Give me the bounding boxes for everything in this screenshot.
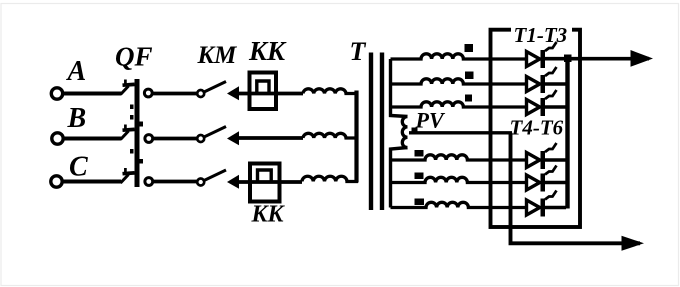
thyristor T6: [527, 191, 567, 217]
polarity marker W5: [415, 173, 424, 180]
svg-text:A: A: [66, 56, 87, 87]
wire C1: [63, 180, 121, 184]
polarity marker W6: [415, 199, 425, 206]
KM arrow A: [227, 86, 239, 100]
primary winding C: [302, 176, 358, 181]
winding W6: [391, 202, 527, 207]
QF blade C: [121, 168, 135, 183]
polarity marker W2: [465, 72, 474, 80]
KM contact B: [197, 135, 204, 142]
svg-text:KK: KK: [248, 36, 287, 66]
winding W4: [391, 155, 527, 160]
breaker QF bar: [135, 79, 140, 187]
top output arrow: [631, 50, 654, 67]
wire B1: [63, 137, 121, 141]
terminal A: [51, 88, 62, 99]
svg-text:B: B: [67, 103, 87, 134]
tap wire: [409, 131, 512, 134]
top output wire: [545, 57, 649, 61]
winding W1: [391, 54, 527, 59]
wire A3: [238, 92, 303, 96]
terminal B: [52, 133, 63, 144]
svg-text:KK: KK: [251, 202, 286, 228]
secondary bus: [391, 59, 408, 208]
wire C2: [153, 180, 197, 184]
svg-text:T1-T3: T1-T3: [514, 23, 568, 47]
QF linkage ticks: [130, 105, 143, 164]
thyristor T1: [527, 42, 557, 68]
QF fixed contact B: [145, 135, 153, 143]
thermal relay KK C: [250, 164, 280, 202]
svg-text:C: C: [69, 152, 88, 183]
QF fixed contact A: [144, 89, 152, 97]
junction tap: [412, 128, 418, 134]
thyristor T2: [527, 67, 567, 93]
winding W2: [391, 79, 527, 84]
KM contact C: [197, 179, 204, 186]
KM contact A: [197, 90, 204, 97]
QF fixed contact C: [145, 178, 153, 186]
polarity marker W3: [465, 95, 472, 102]
dc minus rail: [511, 133, 641, 244]
wire B2: [153, 137, 197, 141]
wire C3: [238, 180, 302, 184]
thyristor T3: [527, 90, 567, 116]
svg-text:PV: PV: [415, 108, 446, 133]
wire A2: [153, 92, 198, 96]
KM arrow C: [227, 175, 239, 189]
terminal C: [51, 176, 62, 187]
thermal relay KK A: [250, 73, 277, 110]
QF blade B: [121, 125, 135, 140]
wire B3: [238, 136, 303, 140]
thyristor T4: [527, 143, 567, 169]
thyristor T5: [527, 166, 567, 192]
converter box: [491, 30, 581, 227]
bottom output arrow: [622, 236, 645, 251]
primary winding A: [303, 89, 358, 94]
junction: [564, 55, 572, 63]
QF blade A: [121, 80, 135, 95]
KM arrow B: [227, 131, 239, 145]
svg-text:KM: KM: [197, 42, 238, 69]
winding PV: [402, 117, 407, 148]
polarity marker W1: [465, 44, 474, 52]
primary bus: [354, 91, 358, 183]
svg-text:T4-T6: T4-T6: [510, 116, 564, 140]
primary winding B: [303, 133, 358, 138]
winding W3: [391, 102, 527, 107]
winding W5: [391, 177, 527, 182]
svg-text:T: T: [350, 37, 367, 66]
cathode bus: [565, 57, 569, 209]
polarity marker W4: [415, 150, 424, 157]
svg-text:QF: QF: [115, 42, 153, 72]
wire A1: [63, 92, 122, 96]
transformer core: [369, 53, 373, 211]
